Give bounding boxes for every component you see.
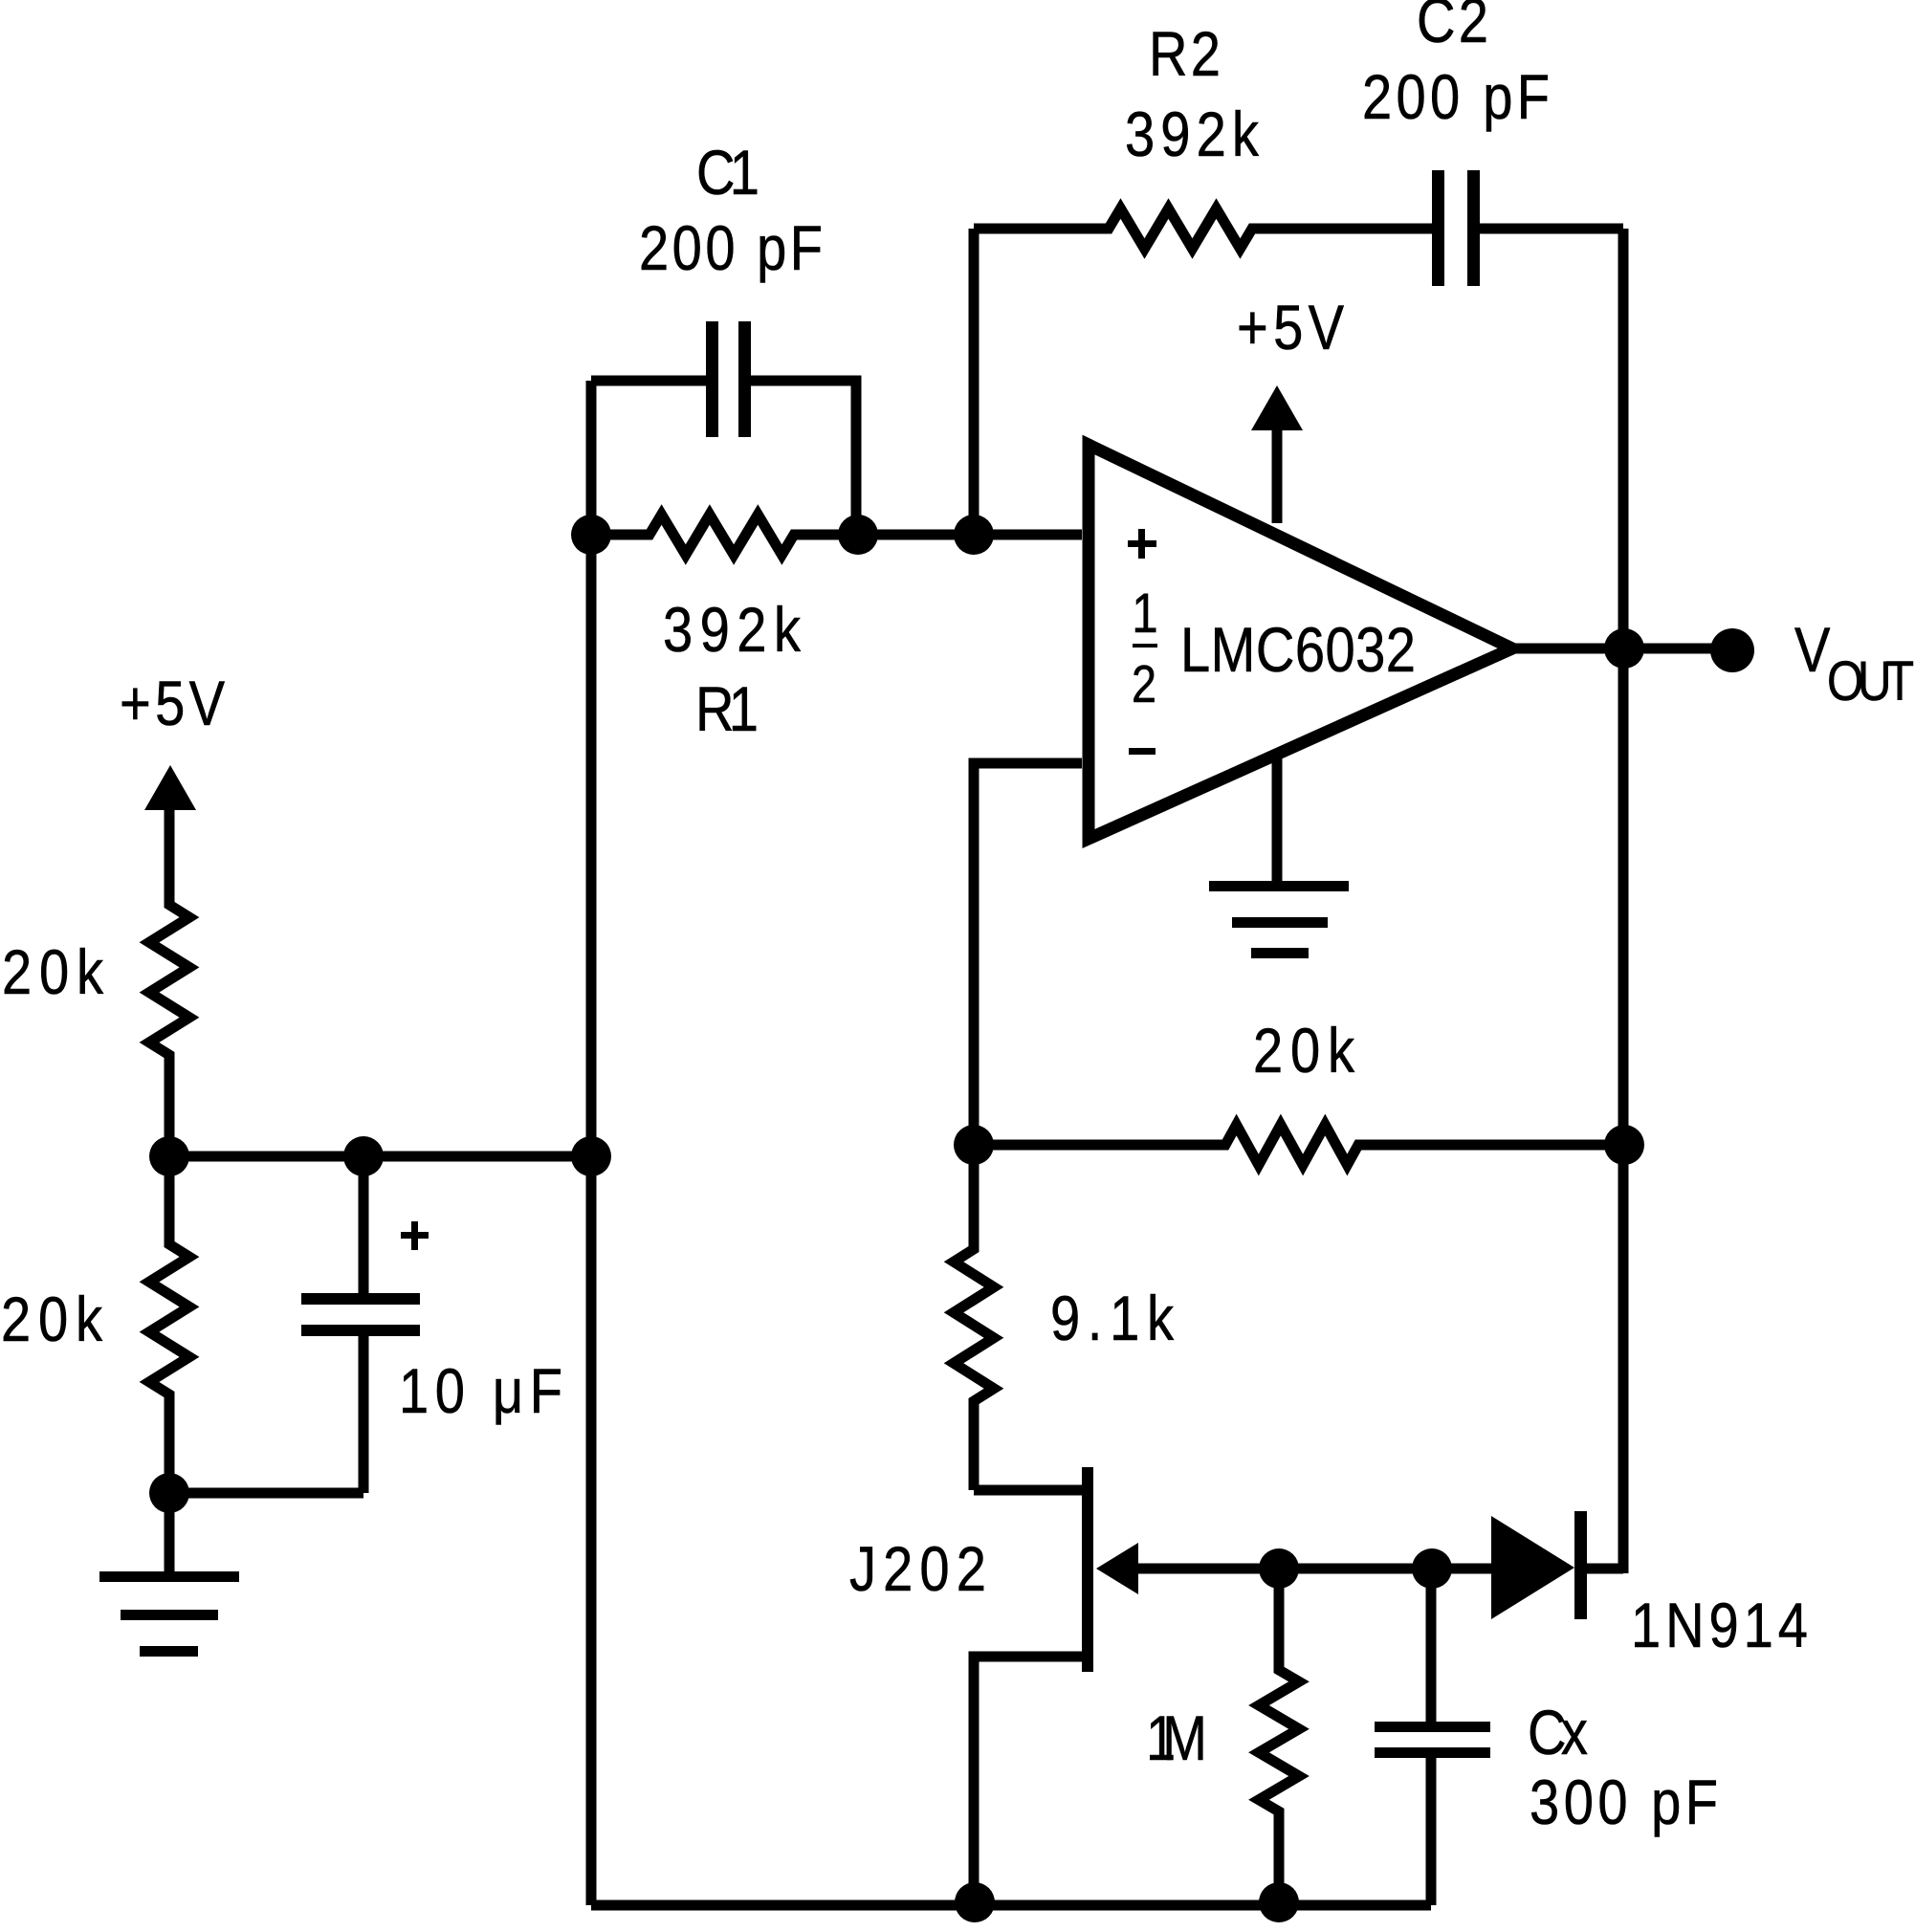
wire 20k row right bbox=[1358, 1140, 1623, 1151]
node: output junction bbox=[1604, 628, 1644, 669]
capacitor C2 200pF bbox=[1432, 170, 1480, 286]
wire divider node to main vertical bbox=[165, 1152, 592, 1162]
node: 10uF top bbox=[343, 1136, 384, 1176]
wire R2 to C2 bbox=[1252, 224, 1433, 234]
svg-text:R2: R2 bbox=[1149, 19, 1221, 89]
svg-text:20k: 20k bbox=[1253, 1016, 1354, 1086]
diode 1N914 bbox=[1491, 1511, 1623, 1619]
gate net wire bbox=[1279, 1564, 1491, 1574]
output terminal dot bbox=[1710, 628, 1754, 672]
capacitor Cx 300pF bbox=[1375, 1569, 1490, 1905]
node: + input branch bbox=[954, 515, 994, 555]
svg-text:20k: 20k bbox=[1, 1284, 102, 1354]
op-amp 1/2 fraction bbox=[1132, 582, 1158, 714]
node: R1 right / C1 bbox=[838, 515, 878, 555]
svg-text:10 μF: 10 μF bbox=[399, 1356, 562, 1426]
svg-text:392k: 392k bbox=[663, 595, 801, 665]
svg-text:2: 2 bbox=[1132, 654, 1156, 713]
svg-text:C2: C2 bbox=[1417, 0, 1488, 55]
resistor R2 392k bbox=[1103, 209, 1258, 249]
svg-text:+5V: +5V bbox=[120, 669, 225, 738]
main vertical wire (non-inverting net) bbox=[586, 381, 597, 1905]
node: inverting branch / 20k row bbox=[954, 1125, 994, 1165]
wire 20k row left bbox=[974, 1140, 1225, 1151]
feedback branch vertical (R2/C2 left) bbox=[969, 229, 980, 535]
op-amp + input symbol bbox=[1128, 529, 1156, 559]
svg-text:1M: 1M bbox=[1146, 1703, 1207, 1773]
svg-text:200 pF: 200 pF bbox=[1362, 62, 1550, 132]
node: gate / Cx bbox=[1412, 1548, 1452, 1589]
svg-text:V: V bbox=[1794, 615, 1831, 685]
svg-text:20k: 20k bbox=[2, 937, 103, 1007]
node: cap/ground junction bbox=[149, 1473, 189, 1513]
resistor 1M bbox=[1259, 1569, 1299, 1905]
node: 20k / output vertical bbox=[1604, 1125, 1644, 1165]
wire feedback top left bbox=[974, 224, 1109, 234]
svg-text:LMC6032: LMC6032 bbox=[1180, 615, 1416, 685]
node: 1M / bottom rail bbox=[1259, 1882, 1299, 1922]
op-amp - input symbol bbox=[1129, 748, 1156, 755]
+5V arrow (left supply) bbox=[144, 765, 196, 905]
node: divider midpoint bbox=[149, 1136, 189, 1176]
wire 20k to ground node bbox=[165, 1394, 175, 1576]
svg-text:392k: 392k bbox=[1125, 99, 1259, 169]
resistor 20k (lower left) bbox=[149, 1156, 189, 1400]
svg-text:J202: J202 bbox=[849, 1534, 986, 1604]
transistor J202 JFET bbox=[974, 1467, 1279, 1905]
inverting input wire bbox=[974, 763, 1082, 1145]
+5V arrow (op-amp supply) bbox=[1251, 385, 1303, 523]
resistor 9.1k bbox=[954, 1145, 994, 1490]
resistor 20k (feedback) bbox=[1220, 1125, 1364, 1165]
capacitor 10uF plus sign bbox=[401, 1221, 429, 1250]
svg-text:200 pF: 200 pF bbox=[639, 213, 823, 283]
capacitor C1 (parallel loop) bbox=[591, 321, 856, 535]
ground (left) bbox=[99, 1571, 239, 1657]
svg-text:300 pF: 300 pF bbox=[1530, 1767, 1718, 1837]
op-amp ground lead bbox=[1272, 753, 1283, 886]
wire from 20k to divider node bbox=[165, 1055, 175, 1156]
node: R1 left bbox=[571, 515, 611, 555]
right vertical wire (output net) bbox=[1618, 229, 1629, 1573]
node: main vertical / divider bbox=[571, 1136, 611, 1176]
ground (op-amp) bbox=[1209, 881, 1349, 958]
resistor 20k (upper left) bbox=[149, 899, 189, 1061]
svg-text:R1: R1 bbox=[695, 674, 759, 744]
output wire bbox=[1512, 644, 1717, 654]
svg-text:C1: C1 bbox=[696, 138, 759, 208]
wire 10uF bottom to ground node bbox=[169, 1488, 363, 1499]
svg-text:OUT: OUT bbox=[1827, 650, 1914, 713]
node: JFET source / bottom rail bbox=[955, 1882, 995, 1922]
VOUT label bbox=[1794, 615, 1914, 713]
wire C2 to right vertical bbox=[1480, 224, 1623, 234]
capacitor 10uF bbox=[301, 1156, 420, 1493]
svg-text:9.1k: 9.1k bbox=[1050, 1284, 1174, 1353]
svg-text:Cx: Cx bbox=[1528, 1698, 1588, 1767]
svg-text:1N914: 1N914 bbox=[1631, 1591, 1808, 1660]
node: gate / 1M bbox=[1259, 1548, 1299, 1589]
svg-text:+5V: +5V bbox=[1237, 293, 1344, 362]
resistor R1 392k bbox=[591, 515, 1082, 555]
svg-text:1: 1 bbox=[1132, 582, 1157, 645]
bottom rail wire bbox=[591, 1900, 1431, 1911]
op-amp 1/2 LMC6032 triangle bbox=[1089, 445, 1512, 839]
